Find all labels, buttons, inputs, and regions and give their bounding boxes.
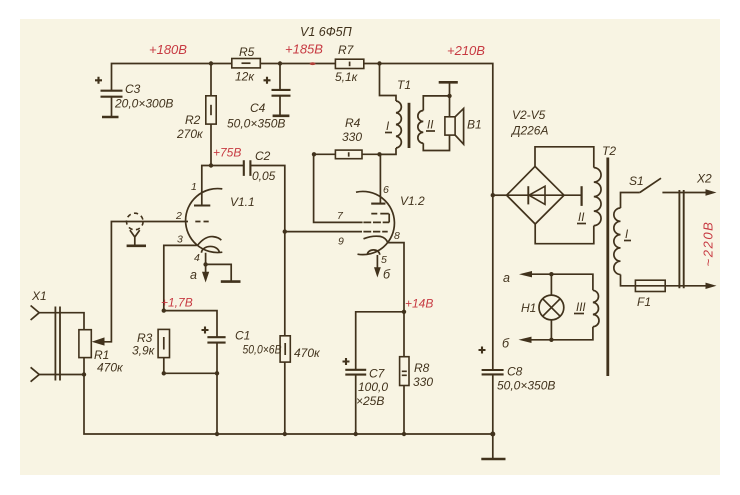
svg-text:C4: C4 xyxy=(250,101,266,115)
svg-text:4: 4 xyxy=(194,252,200,264)
node bridge input junction xyxy=(491,193,495,197)
wire T1 winding I bottom to node xyxy=(380,148,397,154)
node R4 left junction xyxy=(312,152,316,156)
svg-text:20,0×300В: 20,0×300В xyxy=(114,97,173,111)
grid V1.1 dashes xyxy=(195,221,208,223)
svg-text:а: а xyxy=(190,268,197,282)
wire anode V1.1 to C2 xyxy=(202,166,244,206)
node junction C2/470k/grid xyxy=(283,229,287,233)
node +210V junction T1 xyxy=(377,61,381,65)
svg-text:3: 3 xyxy=(177,234,183,246)
svg-text:V2-V5: V2-V5 xyxy=(512,108,546,122)
svg-text:1: 1 xyxy=(191,181,197,193)
svg-text:12к: 12к xyxy=(235,70,255,84)
svg-text:+1,7В: +1,7В xyxy=(161,296,193,310)
svg-text:б: б xyxy=(502,337,510,351)
wire pin4 heater to chassis xyxy=(206,253,232,281)
svg-text:S1: S1 xyxy=(629,174,644,188)
wire +180V top rail with right vertical drop to bridge and C8 xyxy=(112,64,493,459)
wire C2 to grid V1.2 and 470k xyxy=(251,166,362,336)
svg-text:470к: 470к xyxy=(294,346,321,360)
core T2 xyxy=(606,158,609,377)
wire heater line b xyxy=(531,327,593,340)
wire R3-C1 bottom link xyxy=(164,373,217,434)
node pin4 junction xyxy=(203,262,207,266)
arrowhead X2 upper xyxy=(706,189,717,195)
grid g2 dashes V1.2 xyxy=(363,221,389,223)
capacitor C4 xyxy=(227,64,291,131)
anode V1.2 with lead to node xyxy=(371,203,385,205)
arrowhead b xyxy=(519,337,532,343)
svg-text:470к: 470к xyxy=(97,361,124,375)
bridge inner line xyxy=(507,194,581,196)
svg-text:270к: 270к xyxy=(176,127,204,141)
svg-text:C8: C8 xyxy=(507,365,523,379)
svg-text:3,9к: 3,9к xyxy=(132,344,156,358)
svg-text:R7: R7 xyxy=(338,43,355,57)
wire T1 winding II top to chassis and B1 xyxy=(423,96,449,117)
connector X1 lower fork xyxy=(31,367,40,381)
wire bridge bottom to T2 winding II xyxy=(535,224,594,244)
svg-text:100,0: 100,0 xyxy=(358,380,388,394)
bridge AC terminal bar xyxy=(580,186,582,206)
connector X1 upper fork xyxy=(31,306,40,321)
heater V1.2 xyxy=(367,250,379,255)
ground chassis bar at V1.1 heater xyxy=(221,280,241,283)
shield dashed circle on grid wire xyxy=(127,213,144,230)
svg-text:50,0×350В: 50,0×350В xyxy=(497,379,555,393)
svg-text:X2: X2 xyxy=(696,172,712,186)
svg-text:R5: R5 xyxy=(239,45,255,59)
potentiometer R1 xyxy=(79,330,124,375)
resistor R3 xyxy=(132,329,170,373)
transformer T2 winding I xyxy=(614,208,621,275)
ground chassis bar above B1 xyxy=(449,82,451,96)
svg-text:а: а xyxy=(503,271,510,285)
ground chassis bar under C4 xyxy=(273,115,290,118)
svg-text:50,0×350В: 50,0×350В xyxy=(227,117,285,131)
svg-text:F1: F1 xyxy=(637,295,651,309)
cathode V1.2 xyxy=(364,236,388,242)
wire cathode V1.2 to +14V node xyxy=(388,243,404,312)
speaker B1 xyxy=(445,109,482,145)
diode triangle xyxy=(529,186,545,204)
svg-text:+180В: +180В xyxy=(149,42,187,57)
resistor R4 xyxy=(314,116,380,159)
svg-text:V1 6Ф5П: V1 6Ф5П xyxy=(300,25,353,39)
svg-text:330: 330 xyxy=(413,375,433,389)
svg-text:330: 330 xyxy=(342,130,362,144)
svg-text:~220В: ~220В xyxy=(701,221,716,267)
svg-text:II: II xyxy=(578,212,585,224)
transformer T2 winding II xyxy=(594,168,601,226)
svg-text:0,05: 0,05 xyxy=(252,169,276,183)
node +180V junction C4 xyxy=(278,61,282,65)
svg-text:9: 9 xyxy=(338,236,344,248)
svg-text:8: 8 xyxy=(394,230,400,242)
node lamp bottom junction xyxy=(549,338,553,342)
ground chassis bar under C3 xyxy=(102,116,119,119)
node rail R8 xyxy=(402,432,406,436)
svg-text:C1: C1 xyxy=(235,329,250,343)
capacitor C2 xyxy=(244,149,276,183)
svg-text:5: 5 xyxy=(381,254,387,266)
grid g3 dashes V1.2 xyxy=(371,214,389,223)
svg-text:C2: C2 xyxy=(255,149,271,163)
svg-text:+185В: +185В xyxy=(285,42,323,57)
node R4 right / T1 / anode junction xyxy=(377,152,381,156)
fuse F1 xyxy=(635,280,665,309)
wire T2 winding I bottom to F1 xyxy=(621,275,636,286)
node C1 bottom xyxy=(215,371,219,375)
svg-text:R2: R2 xyxy=(185,113,201,127)
lamp H1 xyxy=(521,274,564,340)
svg-text:+14В: +14В xyxy=(405,297,433,311)
svg-text:H1: H1 xyxy=(521,301,536,315)
node lamp top junction xyxy=(549,272,553,276)
wire +1,7V node to C1 xyxy=(164,311,217,337)
svg-text:×25В: ×25В xyxy=(356,394,384,408)
anode V1.1 xyxy=(194,204,210,206)
wire bridge top to T2 winding II xyxy=(535,147,594,168)
diode cathode bar xyxy=(527,186,529,204)
core T1 xyxy=(408,103,411,148)
shield stem to chassis xyxy=(130,230,140,246)
node R3/C1 top junction xyxy=(162,308,166,312)
wire +14V node to C7 xyxy=(356,312,404,370)
connector X2 bars xyxy=(679,190,683,288)
triode V1.1 envelope xyxy=(186,189,223,253)
diode bridge V2-V5 diamond xyxy=(507,166,564,224)
wire grid V1.1 to shield and R1 wiper xyxy=(104,222,189,342)
svg-text:V1.1: V1.1 xyxy=(230,195,255,209)
wire T2 winding I top to switch xyxy=(621,193,640,209)
wire junction to bridge xyxy=(493,194,507,196)
svg-text:б: б xyxy=(383,268,391,282)
capacitor C1 xyxy=(202,327,282,374)
ground main xyxy=(481,458,505,461)
node rail C8 junction xyxy=(490,432,495,437)
svg-text:V1.2: V1.2 xyxy=(400,194,425,208)
arrowhead a xyxy=(519,271,532,277)
wire heater line a xyxy=(531,274,593,290)
node rail 470k xyxy=(283,432,287,436)
wire pin3 V1.1 down to R3 node xyxy=(164,245,197,310)
connector X1 bars xyxy=(55,307,60,381)
potentiometer wiper arrowhead R1 xyxy=(92,337,105,345)
svg-text:5,1к: 5,1к xyxy=(335,70,359,84)
pentode V1.2 envelope xyxy=(356,191,394,254)
svg-text:+75В: +75В xyxy=(213,146,241,160)
wire X2 lower line xyxy=(665,285,707,287)
svg-text:+210В: +210В xyxy=(447,43,485,58)
wire X1 lower to R1 bottom xyxy=(39,374,84,376)
capacitor C3 xyxy=(95,77,173,117)
heater arrow a xyxy=(205,264,207,272)
svg-text:2: 2 xyxy=(175,210,182,222)
capacitor C8 xyxy=(479,347,556,393)
resistor 470k grid xyxy=(280,336,321,434)
node R3 bottom xyxy=(162,371,166,375)
wire X1 upper to R1 xyxy=(39,313,84,330)
svg-text:T2: T2 xyxy=(602,144,616,158)
resistor R2 xyxy=(176,64,216,166)
svg-text:T1: T1 xyxy=(397,78,411,92)
arrowhead X2 lower xyxy=(706,283,717,289)
node +180V junction R2 xyxy=(209,61,213,65)
svg-text:Д226А: Д226А xyxy=(510,124,548,138)
node +14V junction xyxy=(402,310,406,314)
node B1 top junction xyxy=(447,94,451,98)
wire +210V to T1 primary xyxy=(380,64,397,102)
switch S1 xyxy=(640,178,661,192)
resistor R8 xyxy=(400,312,434,434)
wire X2 upper line xyxy=(662,192,707,194)
svg-text:X1: X1 xyxy=(31,289,47,303)
transformer T1 winding II xyxy=(418,111,423,144)
node rail C1 xyxy=(215,432,219,436)
node +75V junction R2-C2 xyxy=(209,163,213,167)
cathode V1.1 xyxy=(197,237,221,246)
heater arrow b V1.2 xyxy=(376,255,378,268)
capacitor C7 xyxy=(343,358,389,434)
ground chassis bar under shield xyxy=(127,245,146,248)
transformer T2 winding III xyxy=(593,290,599,326)
resistor R5 xyxy=(232,45,260,84)
svg-text:II: II xyxy=(427,120,434,132)
svg-text:C7: C7 xyxy=(369,367,386,381)
svg-text:C3: C3 xyxy=(125,82,141,96)
node R1 bottom junction xyxy=(82,372,86,376)
wire T1 winding II bottom to B1 xyxy=(423,135,449,150)
wire bottom rail xyxy=(84,375,493,435)
svg-text:6: 6 xyxy=(383,184,389,196)
svg-text:R4: R4 xyxy=(345,116,361,130)
resistor R7 xyxy=(335,43,364,84)
transformer T1 winding I xyxy=(396,101,401,148)
svg-text:III: III xyxy=(576,302,586,314)
svg-text:R8: R8 xyxy=(414,361,430,375)
svg-text:50,0×6В: 50,0×6В xyxy=(243,343,282,357)
grid g1 dashes V1.2 xyxy=(363,231,387,233)
node rail C7 xyxy=(354,432,358,436)
svg-text:B1: B1 xyxy=(467,118,482,132)
wire R4 left down to pin7 g2 xyxy=(314,154,363,222)
node +185V red measuring dot xyxy=(310,62,316,65)
heater V1.1 xyxy=(202,246,220,252)
